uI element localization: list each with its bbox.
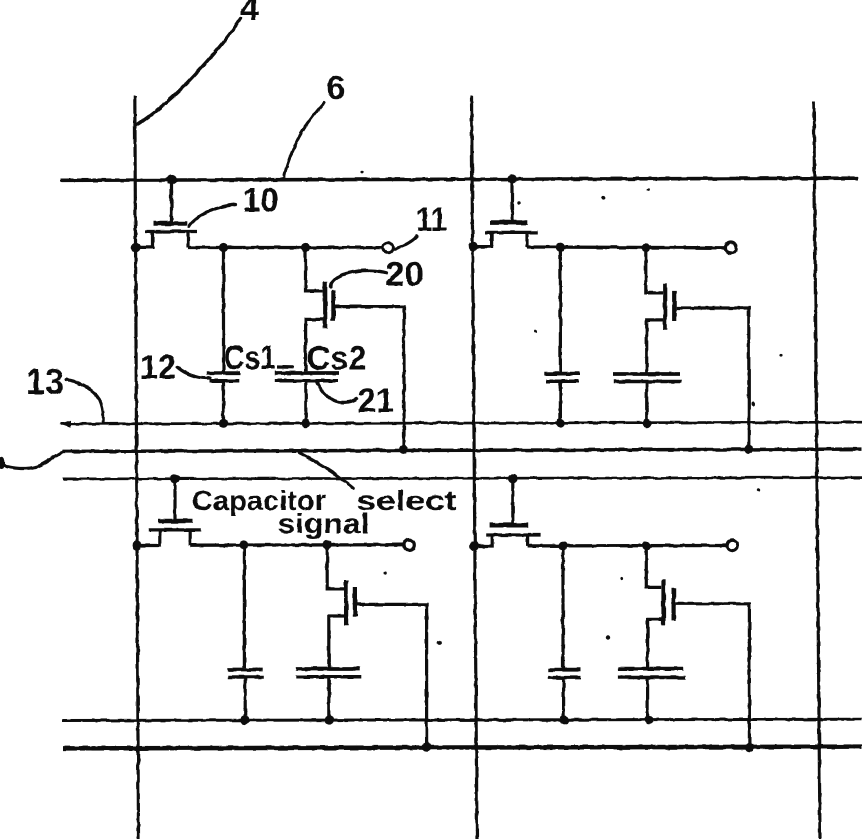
transistor Q20b: source lead down to cap B2 (647, 320, 664, 373)
arrowhead at left end of line 13 (60, 420, 71, 428)
capacitor D1: top stem (561, 546, 564, 668)
junction cap B1 / storage line (556, 419, 565, 428)
junction cap C1 / storage line row 2 (240, 716, 249, 725)
junction Cs1 / line 13 (219, 419, 228, 428)
transistor Q10c: channel bar (149, 528, 201, 531)
transistor Q20: drain stem from node A (306, 248, 324, 291)
transistor Q20b: gate lead to capacitor select line (676, 308, 749, 449)
wire: gate line (row 2) (63, 478, 862, 479)
pointer curve for label 10 (189, 205, 236, 227)
svg-text:20: 20 (385, 256, 424, 294)
svg-text:21: 21 (358, 382, 394, 420)
capacitor C2: bottom stem (327, 677, 330, 720)
transistor Q10b: channel bar (485, 231, 538, 234)
capacitor B1: top stem (559, 247, 562, 372)
wire: signal line 4 (middle column) (472, 96, 478, 839)
capacitor Cs1: bottom stem (222, 381, 225, 424)
svg-text:signal: signal (278, 508, 370, 539)
stray scan specks (360, 170, 363, 173)
junction on middle column (470, 541, 479, 550)
junction node C / cap1 (240, 540, 249, 549)
junction node C / Q20c (322, 540, 331, 549)
transistor Q10d: channel bar (486, 533, 540, 536)
transistor Q20c: gate lead to capacitor select line row 2 (357, 604, 427, 747)
capacitor C1: bottom plate (228, 675, 264, 679)
junction on row-2 gate line (508, 474, 518, 484)
terminal: open circle (pixel electrode) (404, 540, 415, 551)
transistor Q20d: gate lead to capacitor select line row 2 (676, 604, 750, 747)
terminal: open circle (pixel electrode) (725, 243, 736, 254)
capacitor D1: bottom stem (562, 678, 565, 720)
junction on gate line 6 (507, 174, 517, 184)
junction on left column (132, 541, 141, 550)
transistor Q10: drain lead to pixel node (186, 232, 189, 248)
transistor Q20b: channel bar (663, 283, 667, 330)
junction on gate line 6 (167, 175, 177, 185)
wire: gate line 6 (row 1) (60, 178, 858, 180)
junction Q20c gate / capacitor select line row 2 (422, 743, 431, 752)
capacitor B2: bottom plate (614, 380, 682, 384)
junction node A / Cs1 (219, 243, 228, 252)
wire: capacitor select line (row 2) (63, 747, 862, 749)
capacitor Cs2: top plate (275, 371, 339, 375)
capacitor C1: top stem (243, 545, 246, 668)
transistor Q10c: drain lead to pixel node (189, 530, 192, 545)
transistor Q20d: drain stem from node D (646, 546, 661, 588)
transistor Q10b: gate bar (490, 220, 528, 225)
junction Q20b gate / capacitor select line (744, 445, 753, 454)
svg-text:10: 10 (243, 182, 279, 220)
capacitor B1: bottom stem (559, 381, 562, 423)
svg-text:select: select (357, 485, 457, 516)
junction on row-2 gate line (170, 474, 180, 484)
terminal 11: open circle (pixel electrode) (383, 243, 393, 253)
transistor Q20b: gate bar (672, 291, 676, 321)
capacitor B2: top plate (613, 372, 680, 376)
transistor Q20c: source lead down to cap C2 (329, 616, 344, 668)
transistor Q10: gate stem from gate line 6 (170, 180, 173, 222)
capacitor D1: top plate (548, 668, 581, 672)
svg-text:Cs1: Cs1 (224, 339, 276, 377)
transistor Q10: gate bar (154, 221, 187, 226)
transistor Q10b: source lead to middle column (473, 232, 492, 246)
wire: pixel node D horizontal line (528, 544, 727, 548)
transistor Q10d: gate bar (490, 523, 529, 528)
svg-text:6: 6 (327, 69, 346, 107)
junction Cs2 / line 13 (301, 419, 310, 428)
capacitor C1: bottom stem (244, 677, 247, 720)
capacitor Cs2: bottom stem (304, 381, 307, 423)
wire: pixel node B horizontal line (527, 245, 725, 249)
junction cap D2 / storage line row 2 (644, 715, 653, 724)
junction on left column (131, 243, 140, 252)
transistor Q20: gate lead to capacitor select line (335, 307, 404, 450)
transistor Q20c: drain stem from node C (327, 545, 344, 589)
pointer curve for Capacitor select signal caption (300, 453, 354, 489)
transistor Q10d: gate stem from row-2 gate line (511, 479, 514, 524)
svg-text:11: 11 (416, 201, 447, 239)
transistor Q20c: channel bar (344, 580, 348, 625)
transistor Q10: source lead to column line (136, 232, 154, 248)
wire: pixel node C horizontal line (190, 543, 403, 547)
junction Q20d gate / capacitor select line row 2 (745, 743, 754, 752)
wire: signal line 4 (right column) (814, 101, 820, 839)
transistor Q20: source lead down to Cs2 (306, 319, 324, 371)
transistor Q10c: gate bar (158, 519, 193, 524)
transistor Q20: gate bar (331, 290, 335, 320)
capacitor C2: bottom plate (296, 675, 361, 679)
capacitor Cs1: top stem (222, 248, 225, 372)
blob at left edge end of hook (0, 458, 5, 470)
capacitor D2: bottom stem (646, 678, 649, 720)
junction Q20 gate / capacitor select line (399, 445, 408, 454)
pointer curve for label 21 (317, 382, 357, 403)
transistor Q20d: gate bar (671, 588, 675, 621)
wire: capacitor select line (row 1) (62, 449, 862, 451)
pointer curve for label 6 (284, 103, 324, 177)
wire: signal line 4 (left column) (135, 96, 139, 839)
capacitor B2: bottom stem (645, 382, 648, 424)
capacitor B1: top plate (544, 372, 579, 376)
junction node B / Q20b (641, 243, 650, 252)
capacitor Cs1: bottom plate (210, 379, 240, 383)
svg-text:13: 13 (26, 361, 64, 402)
svg-text:Cs2: Cs2 (307, 340, 367, 378)
transistor Q10b: drain lead to pixel node (525, 232, 528, 247)
transistor Q10d: drain lead to pixel node (526, 535, 529, 546)
junction on middle column (468, 242, 477, 251)
pointer curve for label 12 (177, 367, 210, 378)
junction node B / cap1 (556, 243, 565, 252)
terminal: open circle (pixel electrode) (727, 540, 738, 551)
capacitor D1: bottom plate (548, 676, 581, 680)
stray dash after Cs1 label (278, 365, 295, 368)
svg-text:4: 4 (240, 0, 259, 28)
wire: storage capacitor line 13 (row 1) (61, 422, 862, 424)
junction node D / Q20d (642, 541, 651, 550)
junction cap C2 / storage line row 2 (325, 715, 334, 724)
pointer curve for label 13 (66, 380, 103, 422)
wire: storage capacitor line (row 2) (63, 719, 862, 720)
transistor Q10c: source lead to left column (137, 530, 160, 546)
transistor Q20: channel bar (323, 282, 327, 329)
transistor Q10: channel bar (145, 230, 197, 233)
pointer curve for label 4 (138, 19, 241, 125)
junction cap D1 / storage line row 2 (560, 715, 569, 724)
transistor Q10b: gate stem from gate line 6 (510, 179, 513, 221)
capacitor D2: top plate (618, 667, 683, 671)
junction node D / cap1 (558, 541, 567, 550)
capacitor Cs2: bottom plate (275, 379, 338, 383)
capacitor C1: top plate (228, 668, 263, 672)
wire: left hook of capacitor select line (3, 452, 63, 469)
junction node A / Q20 (301, 243, 310, 252)
capacitor D2: bottom plate (618, 676, 686, 680)
transistor Q20b: drain stem from node B (646, 248, 663, 293)
junction cap B2 / storage line (642, 419, 651, 428)
capacitor C2: top plate (296, 667, 360, 671)
svg-text:12: 12 (140, 349, 176, 387)
pointer curve for label 20 (330, 271, 386, 287)
wire: pixel node A horizontal line (188, 246, 382, 249)
capacitor B1: bottom plate (546, 379, 579, 383)
transistor Q10c: gate stem from row-2 gate line (173, 479, 176, 519)
transistor Q10d: source lead to middle column (475, 535, 493, 546)
capacitor Cs1: top plate (207, 371, 241, 375)
transistor Q20d: source lead down to cap D2 (648, 619, 662, 667)
transistor Q20c: gate bar (353, 587, 357, 617)
pointer curve for label 11 (395, 236, 417, 249)
transistor Q20d: channel bar (661, 579, 665, 625)
